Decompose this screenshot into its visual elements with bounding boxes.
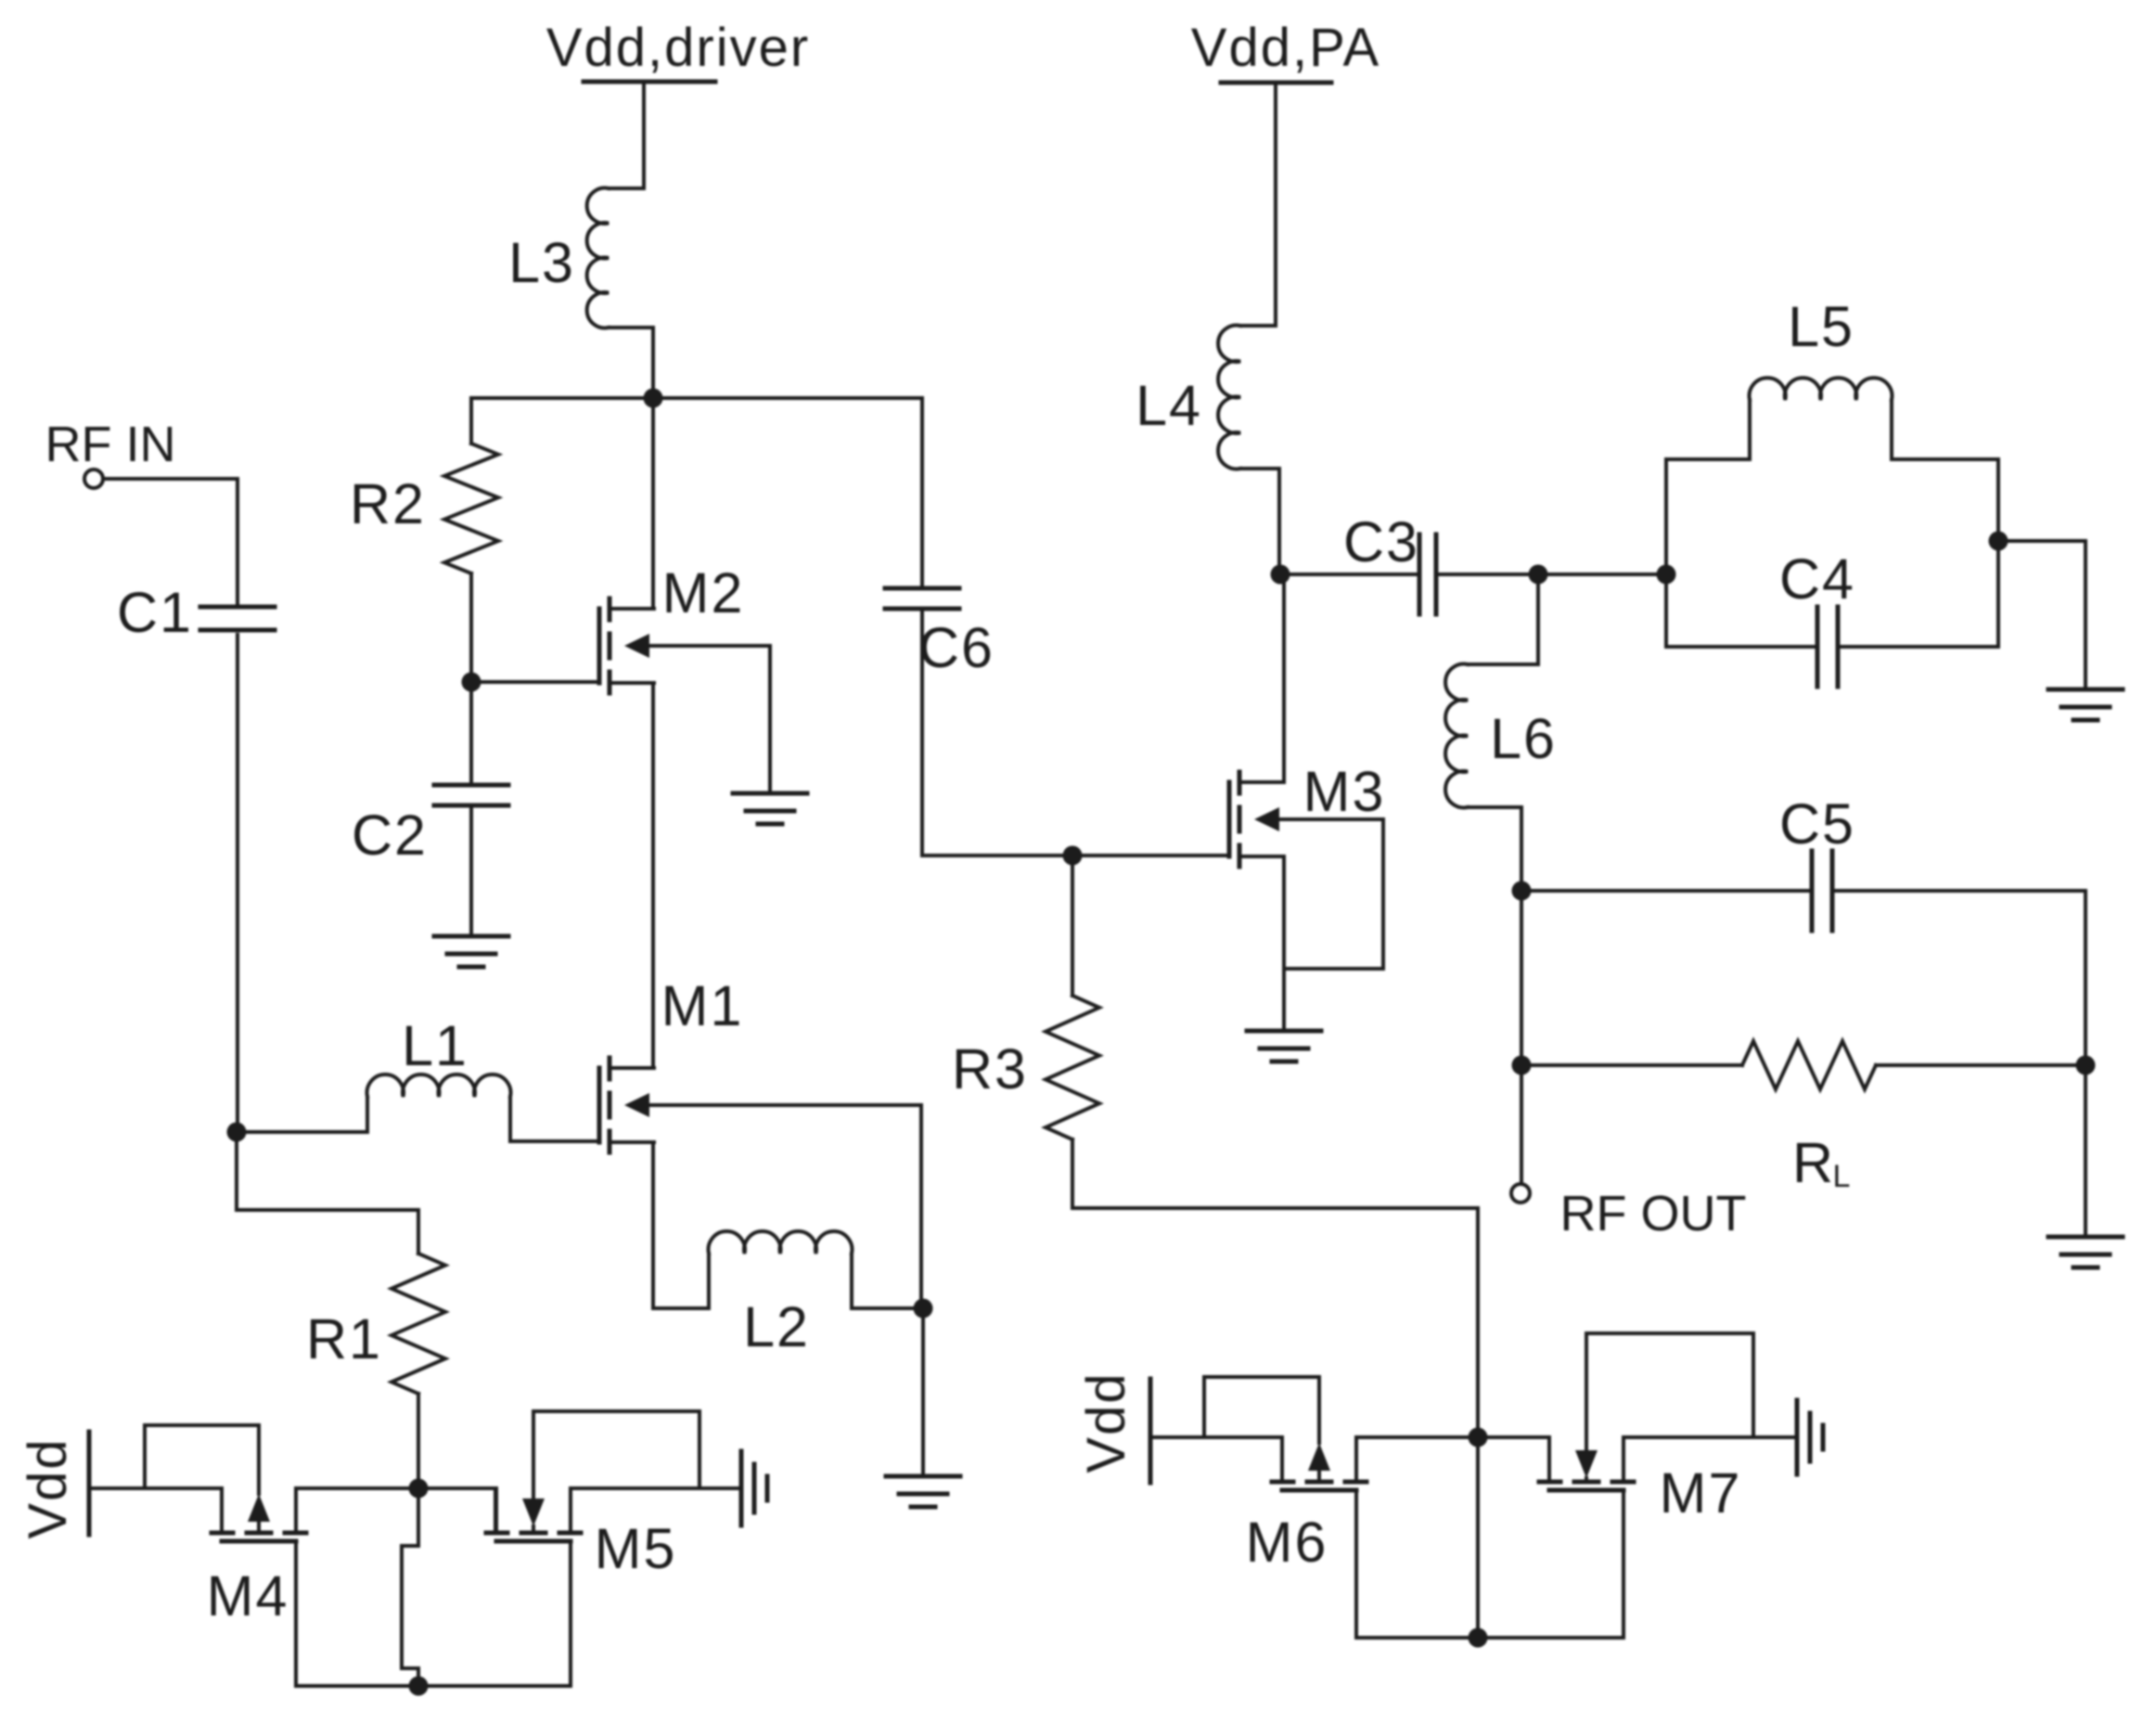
label M3 [1303,760,1386,823]
svg-text:Vdd,driver: Vdd,driver [546,18,810,78]
svg-text:L3: L3 [508,231,575,294]
resistor RL [1742,1041,1876,1089]
label Vdd,driver [546,18,810,78]
wire L4 to node I [1277,469,1281,574]
wire node F to M7 source [1478,1437,1549,1482]
wire node D to ground [921,1308,925,1476]
wire node J to tank [1538,572,1666,576]
wire M2 drain to node B [651,398,655,609]
wire C1 to node A [236,635,239,1132]
svg-text:R3: R3 [952,1037,1028,1100]
inductor L4 [1218,326,1279,470]
wire node F down to gate rail [1476,1437,1480,1638]
wire M2 bulk to ground [649,646,770,793]
svg-text:R: R [1792,1131,1835,1194]
wire RF IN to C1 [104,479,237,604]
power Vdd left bar [87,1432,92,1535]
transistor M7 [1539,1437,1634,1490]
wire node E to R3 [1071,855,1074,996]
svg-text:L4: L4 [1136,374,1202,437]
label L6 [1490,707,1557,770]
wire C2 to ground [469,808,473,936]
label M1 [661,974,744,1037]
wire tank left leg [1664,459,1668,647]
capacitor C4 [1817,607,1838,687]
wire Vdd to M6 source [1150,1437,1282,1482]
inductor L3 [587,188,653,328]
ground at tank [2048,689,2123,720]
label L1 [402,1014,468,1077]
label C2 [352,804,428,867]
ground under RL [2048,1237,2123,1267]
label C5 [1779,792,1855,855]
wire RL row left [1521,1063,1742,1067]
svg-text:Vdd,PA: Vdd,PA [1191,18,1380,78]
wire M7 gate down [1622,1490,1625,1638]
svg-text:C2: C2 [352,804,428,867]
svg-text:M6: M6 [1246,1511,1328,1574]
wire node C to M2 gate [471,680,599,684]
label RF OUT [1560,1186,1747,1241]
svg-text:C6: C6 [918,616,995,679]
wire M4 drain to node G [296,1486,418,1490]
svg-text:RF IN: RF IN [45,417,176,472]
wire node G to M5 source [418,1488,495,1533]
resistor R3 [1046,996,1099,1139]
wire C6 to node E [922,611,1072,855]
svg-text:M1: M1 [661,974,744,1037]
node I [1271,565,1290,585]
label M5 [595,1517,677,1580]
ground at M5 drain [741,1451,767,1525]
node C [462,673,481,692]
svg-text:L2: L2 [743,1295,810,1358]
wire R1 to bias node [417,1394,420,1488]
node J [1529,565,1548,585]
wire M5 gate down [569,1541,572,1686]
wire C5 row [1521,889,2085,893]
ground under M2 bulk [733,793,807,824]
node B [644,389,663,408]
label M6 [1246,1511,1328,1574]
svg-text:L5: L5 [1788,295,1854,358]
wire M7 drain to ground [1623,1435,1795,1439]
transistor M5 [486,1488,581,1541]
label M2 [662,561,745,624]
wire R2 to node C [469,573,473,682]
svg-text:L: L [1833,1159,1853,1194]
wire Vdd to M4 source [89,1488,222,1533]
label RF IN [45,417,176,472]
svg-text:M7: M7 [1660,1461,1742,1524]
inductor L2 [709,1231,853,1308]
wire M6 gate down [1354,1490,1358,1638]
svg-text:Vdd: Vdd [18,1437,78,1538]
svg-text:C5: C5 [1779,792,1855,855]
wire node G jog down [402,1488,418,1686]
label L2 [743,1295,810,1358]
node E [1063,846,1083,866]
wire M3 bulk loop [1279,819,1383,969]
node RF OUT terminal [1511,1184,1530,1203]
node L [1512,881,1532,901]
arrow M6 bulk [1308,1443,1330,1482]
svg-text:M4: M4 [207,1564,289,1627]
arrow M4 bulk [248,1494,270,1533]
wire gate rail M6-M7 [1356,1636,1623,1640]
wire M5 bulk loop [533,1411,699,1497]
label M7 [1660,1461,1742,1524]
wire M7 bulk loop [1586,1333,1753,1448]
node H on gate rail [409,1677,429,1696]
svg-text:M2: M2 [662,561,745,624]
resistor R1 [391,1254,445,1394]
label Vdd,PA [1191,18,1380,78]
wire node E to M3 gate [1072,854,1229,857]
transistor M1 [599,1058,654,1152]
node A [227,1123,247,1142]
label R2 [350,472,426,535]
wire gate rail M4-M5 [296,1684,571,1688]
wire M2 source to M1 drain [651,683,655,1068]
svg-text:L6: L6 [1490,707,1557,770]
ground at M7 drain [1797,1400,1823,1474]
wire M6 drain to node F [1356,1435,1478,1439]
wire node N to ground [2084,1065,2087,1237]
svg-text:C1: C1 [117,581,193,644]
svg-text:L1: L1 [402,1014,468,1077]
arrow M7 bulk [1575,1450,1598,1482]
transistor M6 [1272,1437,1367,1490]
capacitor C1 [200,607,275,630]
inductor L5 [1750,378,1893,459]
svg-text:R2: R2 [350,472,426,535]
wire M4 bulk loop [145,1425,259,1494]
node K [1657,565,1676,585]
ground under C2 [434,936,508,967]
wire M5 drain to ground [571,1486,739,1490]
label L3 [508,231,575,294]
label C3 [1343,510,1419,573]
svg-text:M3: M3 [1303,760,1386,823]
svg-text:Vdd: Vdd [1076,1371,1136,1473]
node F [1469,1428,1488,1447]
label Vdd right [1076,1371,1136,1473]
wire L1 to M1 gate [510,1139,599,1143]
ground under L2 [886,1476,960,1507]
power Vdd right bar [1149,1379,1153,1483]
wire C3 to node J [1439,572,1538,576]
label L5 [1788,295,1854,358]
capacitor C2 [434,785,508,805]
wire C4 row [1666,645,1998,649]
wire node O to RF OUT [1520,1065,1523,1184]
wire L5 to tank right leg [1892,459,1998,647]
node G [409,1479,429,1499]
wire R3 to bias node F [1072,1139,1478,1437]
transistor M3 [1229,772,1284,867]
wire node A to L1 [237,1130,367,1134]
wire L3 to node B [651,328,655,398]
label M4 [207,1564,289,1627]
wire node M to ground stub [1998,541,2085,689]
node RF IN terminal [84,470,103,488]
svg-text:C3: C3 [1343,510,1419,573]
wire M3 drain to node I [1282,574,1286,782]
wire tank top to L5 [1666,457,1750,461]
label C6 [918,616,995,679]
label L4 [1136,374,1202,437]
wire L2 to node D [852,1306,923,1310]
wire M4 gate down [294,1541,298,1686]
svg-text:RF OUT: RF OUT [1560,1186,1747,1241]
label Vdd left [18,1437,78,1538]
arrow M5 bulk [522,1499,545,1533]
label C1 [117,581,193,644]
power Vdd,driver rail [584,82,715,188]
label C4 [1779,547,1855,611]
capacitor C5 [1812,851,1832,931]
wire M1 source to L2 [653,1142,709,1308]
label RL [1792,1131,1852,1194]
wire M3 source to ground [1282,856,1286,1031]
capacitor C6 [885,588,959,609]
node O [1512,1056,1532,1075]
resistor R2 [444,444,498,573]
inductor L1 [367,1074,511,1141]
svg-text:M5: M5 [595,1517,677,1580]
wire node C to C2 [469,682,473,782]
wire drain rail [471,398,922,588]
inductor L6 [1445,574,1538,807]
ground under M3 [1247,1031,1321,1061]
node D [914,1299,933,1319]
svg-text:C4: C4 [1779,547,1855,611]
power Vdd,PA rail [1221,83,1331,326]
wire C5 right down [2084,891,2087,1065]
svg-text:R1: R1 [306,1307,382,1370]
capacitor C3 [1419,534,1436,614]
label R3 [952,1037,1028,1100]
transistor M4 [212,1488,306,1541]
node M [1989,532,2008,551]
wire M6 bulk loop [1204,1377,1319,1443]
wire node L to node O [1520,891,1523,1065]
wire L6 to node L [1520,807,1523,891]
wire node A to R1 [237,1132,418,1254]
wire node I to C3 [1280,572,1417,576]
label R1 [306,1307,382,1370]
node P on gate rail [1469,1628,1488,1648]
node N [2076,1056,2096,1075]
transistor M2 [599,598,654,693]
wire RL row right [1876,1063,2085,1067]
wire M1 bulk to L2 node [649,1105,921,1308]
